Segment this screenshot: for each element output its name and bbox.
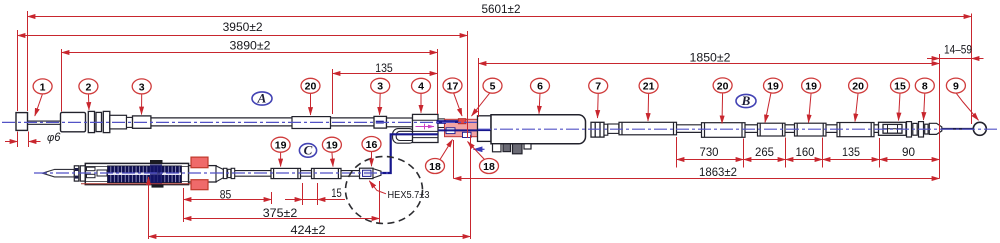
extension line x=148 with arrow up [148, 177, 150, 239]
cable segment right 2 [745, 125, 758, 133]
mounting feet under body [493, 144, 532, 154]
magenta direction arrow inside block 4 [416, 126, 435, 128]
dimension 1863±2 [454, 178, 940, 180]
collar over spring [150, 164, 162, 184]
balloon 19 second [802, 78, 821, 122]
svg-text:135: 135 [375, 63, 393, 75]
balloon 9 [946, 78, 978, 120]
svg-text:20: 20 [717, 80, 729, 92]
extension line x=939 [939, 54, 941, 179]
ferrule part 3 first [133, 116, 151, 128]
svg-text:18: 18 [483, 161, 495, 173]
svg-text:2: 2 [85, 81, 91, 93]
svg-text:3: 3 [139, 81, 145, 93]
segment tick x=880.5 [879, 138, 881, 168]
view label C [299, 143, 316, 158]
svg-text:3950±2: 3950±2 [223, 22, 263, 34]
extension line x=183 [183, 188, 185, 222]
balloon 4 [412, 78, 431, 113]
balloon 20 second [713, 78, 732, 124]
lower thin cable 3 [341, 171, 360, 177]
connector stub after block 4 [438, 119, 445, 128]
extension line x=271.5 [271, 192, 273, 204]
svg-text:1863±2: 1863±2 [699, 167, 737, 179]
tube before block 4 [387, 118, 413, 127]
svg-text:160: 160 [796, 147, 815, 159]
svg-text:7: 7 [595, 81, 601, 93]
segment dimension 160 [786, 159, 823, 161]
svg-text:19: 19 [326, 140, 338, 152]
tube through clamp [189, 166, 217, 182]
balloon 20 first [301, 78, 320, 115]
navy routing elbow to detail view [382, 134, 439, 173]
svg-text:16: 16 [366, 139, 378, 151]
balloon 18 second [468, 142, 499, 174]
adjuster block part 4 [413, 114, 439, 142]
cone end fitting [929, 123, 942, 134]
svg-text:15: 15 [894, 81, 906, 93]
cable housing segment [331, 118, 375, 126]
crimp rings on lower cable [223, 168, 234, 178]
balloon 18 first [426, 140, 453, 174]
svg-text:HEX5.7±3: HEX5.7±3 [388, 190, 430, 201]
balloon 5 [472, 78, 503, 116]
svg-text:1: 1 [40, 81, 46, 93]
cable segment right 1 [677, 125, 702, 133]
cable segment right 4 [826, 125, 837, 133]
connector bars [74, 166, 85, 181]
dimension 15 arrows [285, 199, 303, 201]
svg-text:4: 4 [418, 81, 424, 93]
svg-text:265: 265 [755, 147, 774, 159]
pointed rod end [43, 169, 75, 177]
svg-text:3890±2: 3890±2 [230, 41, 271, 53]
segment dimension 135 right [823, 159, 880, 161]
balloon 1 [33, 79, 52, 116]
white inset 1 in seal pack [446, 128, 455, 134]
extension line x=453 [453, 140, 455, 179]
inner slots in housing [87, 167, 108, 178]
barrel part 2 [61, 112, 86, 131]
crimp ring 3 [103, 111, 110, 132]
svg-text:135: 135 [842, 147, 860, 159]
svg-text:21: 21 [643, 81, 655, 93]
navy inner cable through seal pack [438, 129, 491, 131]
cable housing segment left [151, 118, 292, 126]
svg-text:14–59: 14–59 [944, 45, 972, 57]
cable segment right 5 [874, 125, 879, 133]
segment tick x=745.5 [743, 139, 745, 168]
dimension 5601±2 [28, 16, 972, 18]
segment dimension 265 [744, 159, 786, 161]
centerline main right [478, 128, 998, 130]
balloon 19 lower second [322, 137, 341, 166]
svg-text:8: 8 [922, 81, 928, 93]
flange of adjuster body [478, 116, 492, 142]
svg-text:19: 19 [767, 81, 779, 93]
balloon 2 [79, 79, 98, 110]
red clamp bottom flange [191, 180, 208, 190]
svg-text:20: 20 [852, 81, 864, 93]
dimension 135 [333, 73, 438, 75]
sleeve part 20 first [292, 117, 331, 129]
centerline lower assembly [34, 172, 388, 174]
centerline main left [2, 121, 478, 123]
extension line x=28 [27, 11, 29, 111]
balloon 19 first [764, 78, 783, 122]
svg-text:5601±2: 5601±2 [482, 4, 521, 16]
phi6 extension lines [17, 132, 19, 148]
segment dimension 90 [880, 159, 940, 161]
svg-text:424±2: 424±2 [291, 225, 326, 237]
segment tick x=676.5 [676, 137, 678, 168]
extension line x=332 [332, 69, 334, 114]
collar tab top [150, 160, 163, 164]
extension line x=478 [478, 58, 480, 117]
cable segment right 3 [785, 125, 795, 133]
sleeve part 21 [619, 122, 677, 135]
extension line x=61 [61, 49, 63, 112]
tube after rings [110, 115, 127, 129]
dimension 1850±2 [479, 63, 940, 65]
ferrule part 3 second [374, 116, 387, 128]
balloon 19 lower first [271, 137, 290, 166]
svg-text:C: C [304, 143, 313, 158]
balloon 6 [531, 78, 550, 113]
dimension 85 [184, 199, 272, 201]
svg-text:6: 6 [537, 81, 543, 93]
lower sleeve 19 second [312, 168, 342, 178]
dimension 3890±2 [62, 52, 438, 54]
svg-text:3: 3 [377, 81, 383, 93]
svg-text:19: 19 [805, 81, 817, 93]
eyelet part 9 [973, 122, 986, 135]
sleeve part 19 first [758, 123, 786, 136]
segment tick x=825 [822, 138, 824, 168]
svg-text:A: A [257, 91, 267, 106]
svg-text:17: 17 [447, 80, 459, 92]
lower sleeve 19 first [271, 168, 301, 178]
lower thin cable 2 [301, 171, 312, 177]
extension line x=302 [302, 183, 304, 205]
svg-text:φ6: φ6 [47, 132, 61, 144]
dimension 14-59 [927, 58, 940, 60]
extension line x=471 [470, 135, 472, 239]
taper after clamp [216, 166, 223, 182]
svg-text:B: B [741, 93, 751, 108]
lower thin cable 1 [235, 171, 271, 177]
hex fitting part 16 [360, 168, 374, 178]
crimp ring 1 [88, 111, 94, 132]
taper to routing elbow [373, 169, 381, 178]
left end cap fitting (part 1 area) [16, 113, 28, 131]
svg-text:1850±2: 1850±2 [690, 53, 731, 65]
phi6 dimension arrows [5, 141, 18, 143]
navy cable through flange [478, 129, 492, 131]
spring coil (hatched) [108, 166, 182, 183]
crimp rings part 8 [907, 122, 929, 137]
dimension 375±2 [184, 218, 380, 220]
detail circle C (dashed) [346, 157, 423, 224]
svg-text:20: 20 [305, 81, 317, 93]
balloon 16 [362, 137, 381, 167]
extension line x=437 [437, 49, 439, 114]
dimension 3950±2 [18, 35, 468, 37]
red clamp top flange [191, 157, 208, 168]
extension line x=376 [379, 181, 381, 223]
bracket loop under block 4 [393, 129, 415, 144]
blue direction arrow under flange [474, 148, 485, 150]
svg-text:730: 730 [700, 147, 719, 159]
svg-text:5: 5 [490, 81, 496, 93]
extension line x=317 [317, 183, 319, 205]
HEX5.7 leader [369, 181, 386, 194]
highlighted seal pack (parts 17/5) pink body [445, 119, 478, 136]
inner wire between cap and barrel [28, 121, 61, 124]
balloon 7 [589, 78, 608, 118]
extension line x=971 [971, 14, 973, 125]
segment tick x=786 [785, 138, 787, 168]
sleeve part 19 second [795, 123, 827, 136]
threaded barrel part 15 [879, 122, 907, 135]
rod to eyelet [942, 128, 974, 130]
balloon 20 third [849, 78, 868, 121]
tube after nut [608, 124, 619, 133]
svg-text:18: 18 [429, 161, 441, 173]
adjuster body part 6 [491, 115, 586, 144]
red tab part 17 [458, 119, 466, 124]
spring center gap band [108, 173, 181, 176]
red underline of housing [81, 183, 191, 185]
extension line x=17 [17, 30, 19, 111]
svg-text:19: 19 [275, 140, 287, 152]
svg-text:85: 85 [220, 189, 232, 201]
balloon 17 [443, 78, 462, 116]
extension line x=467 [467, 31, 469, 138]
segment dimension 730 [677, 159, 744, 161]
spring housing tube [85, 163, 188, 184]
dimension 424±2 [149, 236, 471, 238]
sleeve part 20 third [837, 123, 874, 137]
svg-text:9: 9 [953, 81, 959, 93]
svg-text:90: 90 [902, 147, 915, 159]
svg-text:15: 15 [331, 188, 342, 200]
crimp ring 2 [96, 112, 102, 131]
balloon 15 [891, 78, 910, 120]
white inset 2 in seal pack [463, 132, 472, 137]
step tube [127, 117, 133, 127]
balloon 3 [132, 79, 151, 115]
sleeve part 20 second [702, 123, 746, 138]
nut part 7 [591, 122, 608, 137]
balloon 8 [915, 78, 934, 120]
svg-text:375±2: 375±2 [263, 208, 298, 220]
collar tab bottom [152, 184, 164, 187]
view label B [736, 93, 756, 108]
view label A [252, 91, 272, 106]
navy fleck in block 4 [437, 120, 447, 124]
navy band in seal pack [445, 120, 461, 123]
balloon 3 second [371, 78, 390, 115]
balloon 21 [639, 78, 658, 121]
